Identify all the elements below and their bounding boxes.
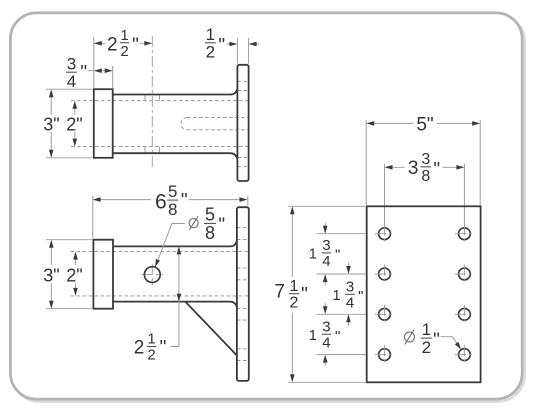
svg-text:5: 5 (205, 205, 215, 225)
svg-text:4: 4 (322, 253, 330, 270)
svg-text:8: 8 (168, 200, 177, 219)
svg-text:2: 2 (422, 338, 431, 357)
svg-text:5": 5" (416, 115, 433, 136)
svg-text:3: 3 (346, 278, 354, 295)
svg-text:": " (160, 337, 167, 358)
svg-text:": " (335, 247, 340, 264)
svg-text:1: 1 (309, 246, 317, 263)
svg-text:5: 5 (168, 182, 177, 201)
svg-text:2: 2 (206, 43, 215, 62)
svg-text:3": 3" (43, 114, 59, 134)
svg-text:": " (181, 190, 188, 211)
svg-text:": " (132, 35, 139, 56)
svg-text:1: 1 (147, 331, 155, 348)
svg-text:4: 4 (322, 334, 330, 351)
svg-text:1: 1 (309, 327, 317, 344)
svg-text:2: 2 (120, 43, 128, 60)
svg-text:": " (433, 330, 440, 351)
svg-text:2": 2" (66, 266, 82, 286)
svg-text:4: 4 (346, 295, 354, 312)
svg-text:1: 1 (120, 27, 128, 44)
svg-text:1: 1 (332, 287, 340, 304)
svg-text:": " (358, 288, 363, 305)
svg-text:": " (433, 160, 440, 181)
svg-text:1: 1 (206, 25, 215, 44)
svg-text:3: 3 (322, 318, 330, 335)
svg-text:2: 2 (290, 295, 299, 312)
svg-text:1: 1 (290, 278, 299, 295)
svg-text:2: 2 (134, 338, 145, 359)
svg-text:": " (335, 328, 340, 345)
svg-text:4: 4 (67, 72, 76, 91)
svg-text:3: 3 (322, 237, 330, 254)
svg-text:2: 2 (107, 35, 118, 56)
svg-text:2: 2 (147, 347, 155, 364)
svg-text:7: 7 (274, 282, 285, 303)
svg-text:3": 3" (43, 266, 59, 286)
svg-text:3: 3 (408, 158, 419, 179)
svg-text:6: 6 (155, 191, 167, 214)
svg-text:": " (301, 285, 308, 306)
svg-text:3: 3 (421, 151, 430, 168)
svg-text:": " (80, 63, 87, 84)
svg-text:1: 1 (422, 320, 431, 339)
svg-text:8: 8 (205, 223, 215, 243)
svg-text:": " (218, 215, 225, 236)
svg-text:3: 3 (67, 54, 76, 73)
svg-text:": " (218, 36, 225, 57)
svg-text:2": 2" (66, 114, 82, 134)
svg-text:8: 8 (421, 168, 430, 185)
